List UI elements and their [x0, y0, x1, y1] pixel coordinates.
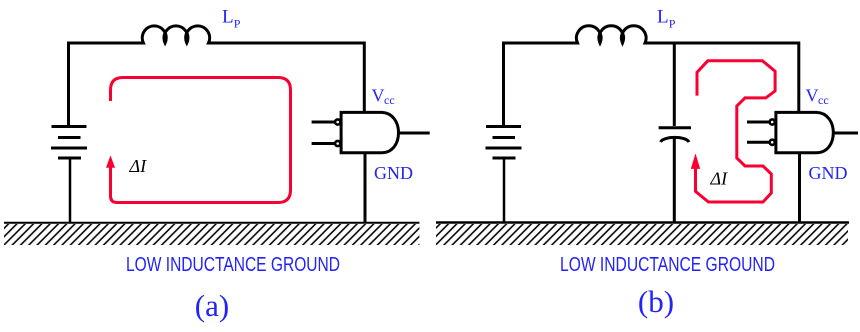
svg-text:GND: GND — [809, 163, 848, 183]
svg-text:ΔI: ΔI — [710, 168, 729, 188]
svg-text:L: L — [657, 7, 669, 28]
svg-text:L: L — [222, 7, 234, 28]
svg-text:cc: cc — [818, 93, 829, 107]
svg-text:(b): (b) — [638, 284, 674, 319]
svg-text:V: V — [806, 86, 819, 106]
svg-text:cc: cc — [384, 93, 395, 107]
svg-text:LOW INDUCTANCE GROUND: LOW INDUCTANCE GROUND — [126, 254, 340, 276]
svg-text:P: P — [669, 16, 676, 30]
svg-text:V: V — [372, 86, 385, 106]
svg-text:(a): (a) — [195, 288, 229, 323]
svg-text:GND: GND — [374, 163, 413, 183]
svg-text:LOW INDUCTANCE GROUND: LOW INDUCTANCE GROUND — [560, 254, 775, 276]
svg-text:P: P — [234, 16, 241, 30]
svg-text:ΔI: ΔI — [129, 156, 148, 176]
